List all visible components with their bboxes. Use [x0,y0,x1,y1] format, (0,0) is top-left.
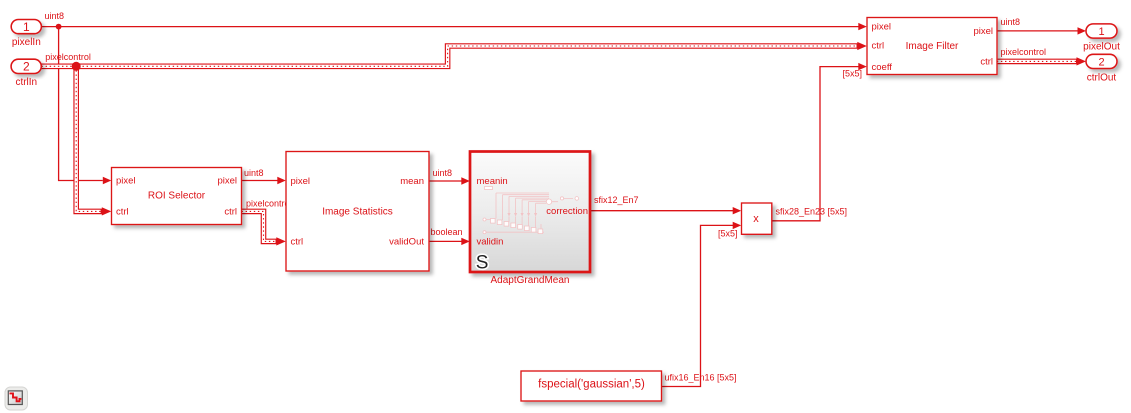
inport 1 pixelIn [11,20,41,34]
svg-text:pixelcontrol: pixelcontrol [1001,47,1047,57]
arrowhead into ctrlOut [1077,57,1087,65]
bus wire ctrlIn to Image Filter ctrl (pixelcontrol) [42,46,859,66]
svg-text:ctrl: ctrl [291,237,304,248]
wire AdaptGrandMean correction to product input 1 [591,210,734,212]
block Image Statistics [286,152,429,272]
bus wire Image Filter ctrl out to ctrlOut port [997,59,1078,65]
svg-text:correction: correction [546,206,588,217]
subsystem preview delay chain squares [491,219,543,234]
svg-text:ctrl: ctrl [980,57,993,68]
subsystem preview schematic (faint) [483,187,579,234]
svg-text:pixelcontrol: pixelcontrol [45,52,91,62]
product block x [742,203,772,234]
wire Image Statistics validOut to AdaptGrandMean validin [429,240,462,242]
svg-text:sfix28_En23 [5x5]: sfix28_En23 [5x5] [776,207,848,217]
wire pixelIn to Image Filter pixel (uint8) [42,26,859,28]
wire fspecial constant up to product input 2 [662,225,733,386]
svg-text:uint8: uint8 [433,168,453,178]
arrowhead into Image Filter coeff [858,63,867,70]
svg-text:pixel: pixel [116,176,136,187]
outport 1 pixelOut [1086,24,1117,38]
outport 2 ctrlOut [1086,54,1117,68]
bus junction on ctrlIn wire [72,62,81,71]
junction on pixelIn wire [56,24,62,30]
svg-text:mean: mean [400,176,424,187]
svg-text:validin: validin [477,237,504,248]
svg-text:2: 2 [1098,56,1104,68]
svg-text:uint8: uint8 [244,168,264,178]
arrowhead into ROI Selector ctrl [102,207,112,215]
inport 2 ctrlIn [11,59,41,73]
wire Image Filter pixel out to pixelOut port [997,30,1078,32]
block Image Filter [867,18,997,75]
arrowhead into product input 1 [733,207,742,214]
bus wire ROI Selector ctrl out to Image Statistics ctrl [242,211,278,241]
svg-text:ctrl: ctrl [224,207,237,218]
subsystem preview tap arrowheads [507,213,537,217]
block ROI Selector [112,168,242,225]
wire product output up to Image Filter coeff [772,67,859,221]
arrowhead into Image Statistics pixel [277,177,286,184]
svg-text:validOut: validOut [389,237,424,248]
subsystem AdaptGrandMean [470,152,590,273]
arrowhead into pixelOut [1078,27,1087,34]
svg-text:Image Statistics: Image Statistics [322,206,393,217]
svg-text:S: S [476,252,489,273]
svg-text:ctrlOut: ctrlOut [1087,72,1117,83]
svg-text:2: 2 [23,60,30,74]
SIGNAL LABELS [45,11,1047,383]
wire ROI Selector pixel out to Image Statistics pixel [242,180,278,182]
arrowhead into validin [461,238,470,245]
svg-text:pixel: pixel [872,22,892,33]
svg-text:boolean: boolean [431,227,463,237]
arrowhead into meanin [461,177,470,184]
svg-text:ctrl: ctrl [116,207,129,218]
wire Image Statistics mean to AdaptGrandMean meanin [429,180,462,182]
svg-text:pixelcontrol: pixelcontrol [246,198,292,208]
svg-text:pixelIn: pixelIn [12,37,41,48]
svg-text:ROI Selector: ROI Selector [148,191,206,202]
svg-text:ctrlIn: ctrlIn [15,77,37,88]
svg-text:sfix12_En7: sfix12_En7 [594,195,639,205]
arrowhead into Image Filter ctrl [857,42,867,50]
sample time legend icon [5,387,28,410]
svg-text:AdaptGrandMean: AdaptGrandMean [491,275,570,286]
svg-text:pixel: pixel [291,176,311,187]
svg-text:x: x [753,213,759,225]
svg-text:pixelOut: pixelOut [1083,41,1120,52]
svg-text:[5x5]: [5x5] [843,69,863,79]
arrowhead into ROI Selector pixel [103,177,112,184]
bus branch ctrlIn down to ROI Selector ctrl [76,66,103,211]
svg-text:uint8: uint8 [45,11,65,21]
arrowhead into product input 2 [733,222,742,229]
svg-text:meanin: meanin [477,176,508,187]
arrowhead into Image Filter pixel [858,23,867,30]
svg-text:1: 1 [23,20,30,34]
svg-text:pixel: pixel [973,26,993,37]
svg-text:1: 1 [1098,26,1104,38]
svg-text:[5x5]: [5x5] [718,229,738,239]
svg-text:Image Filter: Image Filter [906,41,959,52]
svg-text:pixel: pixel [217,176,237,187]
arrowhead into Image Statistics ctrl [276,237,286,245]
subsystem port labels [477,176,589,247]
svg-text:coeff: coeff [872,62,893,73]
svg-text:ctrl: ctrl [872,41,885,52]
wire branch pixelIn down to ROI Selector pixel [59,27,103,181]
constant fspecial('gaussian',5) [521,371,662,401]
svg-text:ufix16_En16 [5x5]: ufix16_En16 [5x5] [665,373,737,383]
svg-text:fspecial('gaussian',5): fspecial('gaussian',5) [538,379,645,391]
svg-text:uint8: uint8 [1001,17,1021,27]
